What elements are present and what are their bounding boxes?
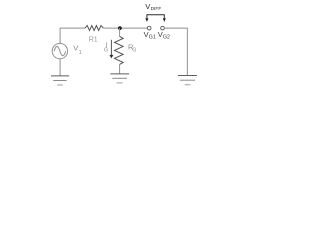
ground (middle) [110,73,129,75]
svg-text:G: G [132,47,136,53]
svg-text:G2: G2 [163,35,170,41]
svg-text:1: 1 [79,50,82,56]
wire node to RG [119,28,121,36]
voltage source V1 [52,43,67,58]
node junction dot [118,26,122,30]
terminal VG2 [161,26,165,30]
svg-text:V: V [73,44,78,53]
svg-text:G1: G1 [149,35,156,41]
wire R1 to node [103,27,147,29]
svg-text:G: G [104,47,108,53]
wire RG to ground [119,64,121,73]
wire source to ground [59,59,61,76]
VDIFF bracket with arrows [147,15,164,18]
current arrow IG [110,40,112,56]
svg-text:R1: R1 [89,37,98,44]
resistor RG [115,36,124,64]
wire from source top to R1 [60,28,85,43]
terminal VG1 [147,26,151,30]
resistor R1 [85,26,103,31]
svg-text:DIFF: DIFF [151,6,162,12]
wire VG2 to right ground [164,28,187,75]
ground (right) [178,75,197,77]
ground (left) [51,75,69,77]
